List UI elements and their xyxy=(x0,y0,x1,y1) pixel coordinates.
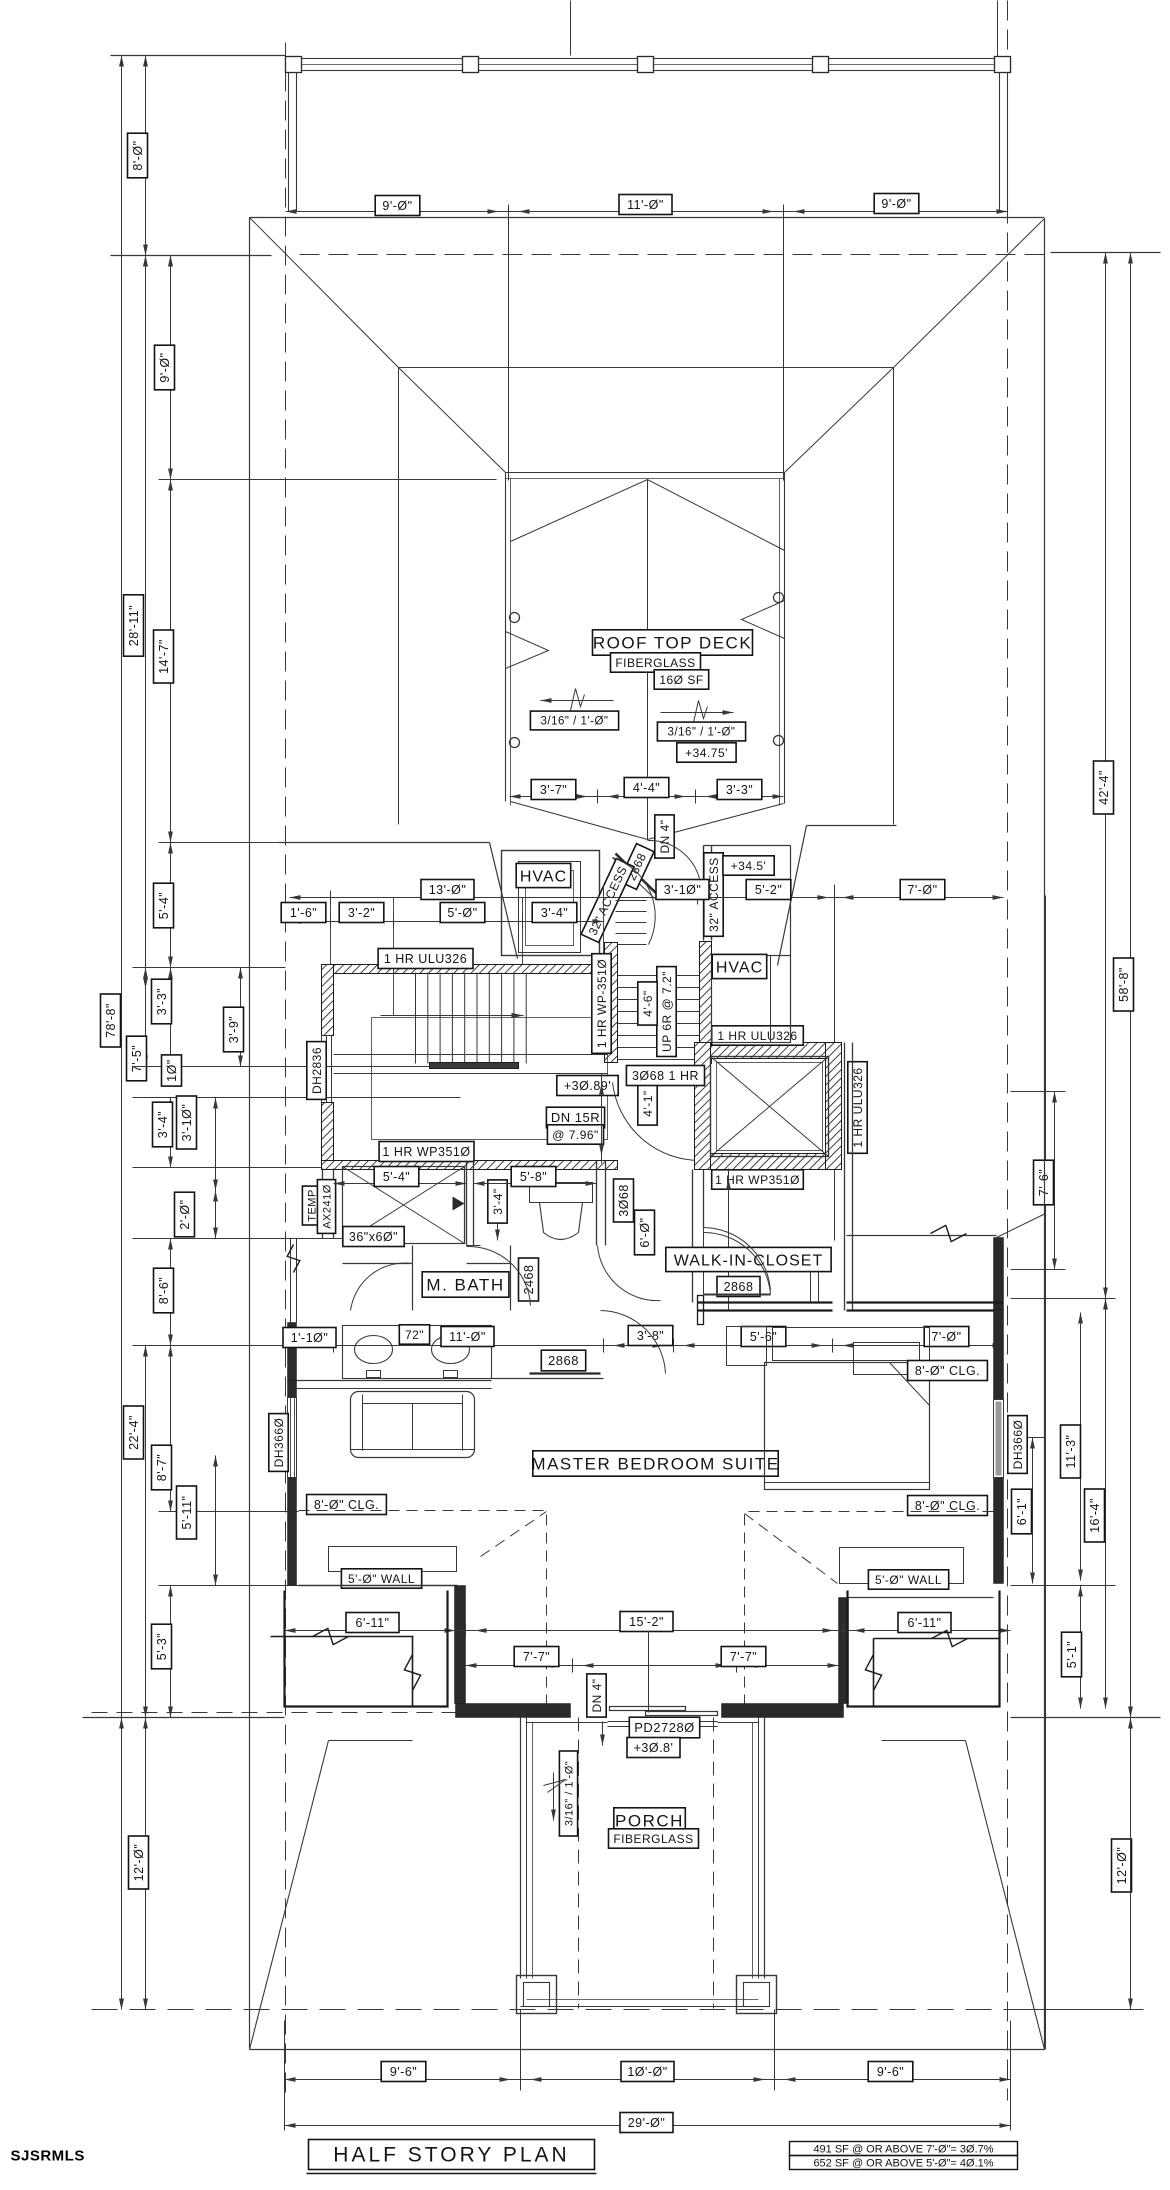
label DH3660 left xyxy=(269,1414,288,1472)
ext vert x834 xyxy=(834,885,836,1241)
porch dn arrow xyxy=(602,1722,604,1746)
ext line y2009 right xyxy=(1020,2009,1144,2011)
label ROOF TOP DECK xyxy=(593,630,753,655)
site diag left xyxy=(250,1741,329,2050)
stair rail xyxy=(430,1063,519,1069)
label 3'-7 xyxy=(531,780,576,800)
site dashed y2009 xyxy=(92,2009,1116,2011)
upper stair arc xyxy=(613,858,656,945)
railing post 1 xyxy=(286,57,302,73)
door mark xyxy=(453,1197,465,1211)
ext line y1167 xyxy=(133,1167,323,1169)
svg-text:16Ø SF: 16Ø SF xyxy=(659,673,703,687)
label 6'-1 xyxy=(1012,1489,1032,1534)
label 2868 angled xyxy=(619,844,654,890)
label 10" xyxy=(162,1055,182,1086)
label 32 ACCESS left xyxy=(581,859,634,943)
svg-text:28'-11": 28'-11" xyxy=(127,605,141,646)
stair landing lines xyxy=(334,1054,608,1056)
patio door PD27280 xyxy=(610,1707,686,1711)
svg-text:5'-Ø" WALL: 5'-Ø" WALL xyxy=(348,1572,415,1586)
label 12'-0 right xyxy=(1112,1839,1132,1892)
label DN 4 porch xyxy=(587,1674,606,1717)
svg-text:1'-1Ø": 1'-1Ø" xyxy=(291,1331,329,1345)
dim line y1345 xyxy=(297,1345,1004,1347)
svg-text:3'-8": 3'-8" xyxy=(637,1329,664,1343)
deck drain 1 xyxy=(510,613,520,623)
dim 28'-11 line xyxy=(145,256,147,989)
svg-text:11'-Ø": 11'-Ø" xyxy=(627,198,664,212)
dim 3'-9 line xyxy=(240,968,242,1067)
svg-text:SJSRMLS: SJSRMLS xyxy=(11,2148,85,2165)
roof ridge peak xyxy=(511,480,785,551)
window DH3660 right xyxy=(994,1400,1004,1478)
svg-text:DH366Ø: DH366Ø xyxy=(1011,1420,1025,1470)
dim 5'-4 line xyxy=(170,843,172,968)
label slope porch xyxy=(559,1751,577,1836)
ext line y1717 xyxy=(83,1717,285,1719)
dresser right xyxy=(727,1327,767,1366)
upper small stair treads xyxy=(616,900,647,902)
bath inner walls xyxy=(412,1246,414,1311)
label 8'-0 xyxy=(128,133,148,178)
svg-text:MASTER BEDROOM SUITE: MASTER BEDROOM SUITE xyxy=(531,1455,779,1474)
ext line y967 xyxy=(133,967,286,969)
porch top edge xyxy=(527,1722,608,1724)
ext line y1585 xyxy=(159,1585,299,1587)
dim 6'-0 line xyxy=(728,1169,730,1311)
ceiling dashed left xyxy=(299,1511,547,1718)
property line left (dashed) xyxy=(285,43,287,2101)
deck parapet left xyxy=(505,473,507,802)
hidden dash y1710 xyxy=(92,1712,456,1714)
svg-text:3/16" / 1'-Ø": 3/16" / 1'-Ø" xyxy=(668,727,736,739)
stair treads xyxy=(415,973,417,1064)
sink 2 xyxy=(432,1336,470,1364)
stair right wall xyxy=(605,943,618,1063)
setback dashed y254 xyxy=(300,254,1045,256)
svg-text:+3Ø.8': +3Ø.8' xyxy=(634,1741,674,1755)
label 3068 1HR xyxy=(626,1066,704,1086)
label 5'-3 xyxy=(152,1624,172,1669)
area table xyxy=(790,2142,1018,2156)
svg-text:3'-1Ø": 3'-1Ø" xyxy=(664,883,702,897)
label 11'-0 bath xyxy=(441,1327,494,1347)
svg-text:6'-1": 6'-1" xyxy=(1015,1498,1029,1525)
ext vert x330 xyxy=(330,898,332,965)
svg-text:7'-7": 7'-7" xyxy=(730,1650,757,1664)
svg-text:42'-4": 42'-4" xyxy=(1097,770,1111,805)
ext line y479 xyxy=(159,479,497,481)
bedroom bottom-left walls xyxy=(299,1585,458,1587)
label 5'-11 xyxy=(177,1486,197,1539)
access hatch right walls xyxy=(703,846,705,941)
label 1'-6 xyxy=(281,903,326,923)
label 3068 bath xyxy=(614,1179,634,1222)
svg-text:6'-11": 6'-11" xyxy=(356,1616,390,1630)
label 8'-0 CLG a xyxy=(307,1495,387,1515)
slope arrow left xyxy=(541,700,614,702)
svg-text:2'-Ø": 2'-Ø" xyxy=(178,1199,192,1229)
porch column right xyxy=(737,1976,777,2014)
label 1 HR ULU326 stairs xyxy=(378,949,473,969)
svg-text:5'-6": 5'-6" xyxy=(750,1330,777,1344)
label 7'-5 xyxy=(127,1036,147,1081)
svg-text:4'-1": 4'-1" xyxy=(641,1090,655,1116)
svg-text:2868: 2868 xyxy=(724,1280,754,1294)
svg-text:8'-6": 8'-6" xyxy=(157,1277,171,1304)
label 7'-6 xyxy=(1034,1160,1054,1205)
label 5'-6 xyxy=(741,1327,786,1347)
label 22'-4 xyxy=(124,1406,144,1459)
svg-text:29'-Ø": 29'-Ø" xyxy=(628,2116,666,2130)
deck dim line xyxy=(510,796,784,798)
label 8'-7 xyxy=(152,1445,172,1490)
roof inner top xyxy=(399,367,894,369)
hvac right closet xyxy=(712,956,791,1043)
bedroom top wall right xyxy=(847,1301,1004,1303)
site diag right xyxy=(966,1741,1045,2050)
railing left rail xyxy=(288,73,290,212)
svg-text:5'-1": 5'-1" xyxy=(1065,1641,1079,1668)
floor slant right xyxy=(778,826,807,966)
label 6'-11 b xyxy=(898,1613,951,1633)
label 7'-0 bed xyxy=(924,1327,969,1347)
stair inner lines xyxy=(372,1018,608,1140)
dim 14'-7 line xyxy=(170,480,172,843)
svg-text:3'-7": 3'-7" xyxy=(540,783,567,797)
bedroom bottom wall xyxy=(456,1704,571,1718)
svg-text:9'-Ø": 9'-Ø" xyxy=(382,199,412,213)
label M. BATH xyxy=(422,1272,509,1297)
label 36x60 xyxy=(343,1227,404,1247)
svg-text:DH2836: DH2836 xyxy=(310,1047,324,1094)
svg-text:M. BATH: M. BATH xyxy=(426,1276,504,1295)
svg-text:72": 72" xyxy=(405,1328,424,1342)
svg-text:FIBERGLASS: FIBERGLASS xyxy=(613,1832,693,1846)
svg-text:1Ø": 1Ø" xyxy=(165,1059,179,1082)
ext line y1238 xyxy=(133,1238,343,1240)
dim 3'-4 bath xyxy=(497,1184,499,1241)
label +30.89 xyxy=(557,1076,618,1096)
bath left wall xyxy=(322,1169,324,1239)
hvac-l closet walls xyxy=(502,851,600,956)
label 11'-0 top xyxy=(619,195,672,215)
label 58'-8 xyxy=(1114,958,1134,1011)
svg-text:1 HR WP351Ø: 1 HR WP351Ø xyxy=(382,1145,470,1159)
bedroom right wall xyxy=(994,1310,1004,1400)
roof inner right xyxy=(893,368,895,825)
label 9'-0 top b xyxy=(874,194,919,214)
deck drain 3 xyxy=(510,738,520,748)
roof hip top-right xyxy=(894,219,1045,368)
dim 3'-4 line xyxy=(170,1098,172,1168)
dim 4'-1 line xyxy=(601,1074,603,1164)
label 1 HR WP3510 shaft xyxy=(712,1170,804,1189)
ext line y1345 xyxy=(133,1345,297,1347)
label 12'-0 left xyxy=(129,1836,149,1889)
toilet xyxy=(530,1183,593,1203)
bath lower walls xyxy=(467,1263,511,1265)
svg-text:HALF STORY PLAN: HALF STORY PLAN xyxy=(333,2144,569,2167)
shaft X xyxy=(711,1057,829,1157)
label 72" xyxy=(399,1325,429,1344)
floor outline left xyxy=(279,842,490,844)
svg-text:5'-Ø" WALL: 5'-Ø" WALL xyxy=(875,1573,942,1587)
label 5'-0 WALL a xyxy=(341,1569,421,1588)
svg-text:5'-11": 5'-11" xyxy=(180,1496,194,1530)
label 3'-4 left xyxy=(153,1102,173,1147)
label 13'-0 xyxy=(421,880,474,900)
dim 5'-11 line xyxy=(215,1456,217,1586)
svg-text:9'-6": 9'-6" xyxy=(390,2065,417,2079)
svg-text:3'-4": 3'-4" xyxy=(491,1188,505,1214)
svg-text:9'-Ø": 9'-Ø" xyxy=(158,352,172,382)
svg-text:9'-6": 9'-6" xyxy=(877,2065,904,2079)
sofa xyxy=(351,1392,475,1458)
label 2468 xyxy=(519,1258,539,1301)
bedroom bottom-right walls xyxy=(848,1597,994,1599)
label 9'-0 left xyxy=(155,345,175,390)
dim 5'-8 bath xyxy=(474,1183,597,1185)
svg-text:5'-8": 5'-8" xyxy=(520,1170,547,1184)
dim 7'-6 line xyxy=(1054,1092,1056,1270)
ext line y1585 right xyxy=(1011,1585,1116,1587)
break line right xyxy=(847,1235,997,1237)
ceiling dashed right xyxy=(745,1512,994,1718)
dim 16'-4 line xyxy=(1105,1299,1107,1709)
roof hip inner-left xyxy=(399,368,506,473)
label 3'-4 bath xyxy=(488,1180,507,1223)
label HVAC left xyxy=(516,863,571,887)
closet door arc xyxy=(704,1228,771,1291)
svg-text:11'-3": 11'-3" xyxy=(1064,1435,1078,1469)
porch right wall xyxy=(764,1718,766,1979)
label 32 ACCESS right xyxy=(704,853,723,937)
svg-text:+3Ø.89': +3Ø.89' xyxy=(564,1079,611,1093)
walkin left wall xyxy=(692,1170,694,1228)
dim 9'-0 left xyxy=(170,256,172,480)
deck edge mark right xyxy=(742,601,785,639)
label 42'-4 xyxy=(1094,761,1114,814)
stair top wall xyxy=(322,965,618,974)
railing post 4 xyxy=(813,57,829,73)
label 9'-0 top a xyxy=(375,196,420,216)
svg-text:12'-Ø": 12'-Ø" xyxy=(1115,1847,1129,1885)
svg-text:14'-7": 14'-7" xyxy=(157,639,171,674)
bed xyxy=(765,1363,930,1490)
bed door sill xyxy=(530,1372,601,1374)
roof inner left xyxy=(398,368,400,825)
porch steps xyxy=(608,1721,718,1723)
label 8'-0 CLG c xyxy=(908,1496,988,1516)
svg-text:1'-6": 1'-6" xyxy=(290,906,317,920)
sink 1 xyxy=(355,1336,393,1364)
svg-text:PORCH: PORCH xyxy=(615,1812,684,1831)
svg-text:13'-Ø": 13'-Ø" xyxy=(429,883,467,897)
deck access arc xyxy=(648,840,700,878)
ext line y842 xyxy=(159,842,279,844)
label 29'-0 xyxy=(620,2113,673,2133)
svg-text:+34.75': +34.75' xyxy=(685,746,728,760)
label @7.96 xyxy=(547,1125,603,1144)
shaft inner xyxy=(711,1057,829,1157)
deck valley right xyxy=(648,804,784,840)
svg-text:1 HR ULU326: 1 HR ULU326 xyxy=(717,1029,797,1043)
label 3'-3 deck xyxy=(717,780,762,800)
label 1 HR ULU326 shaft xyxy=(712,1026,804,1045)
label 1'-10 xyxy=(283,1328,336,1348)
svg-text:3'-3": 3'-3" xyxy=(726,783,753,797)
svg-text:8'-Ø" CLG.: 8'-Ø" CLG. xyxy=(314,1498,379,1512)
dim 3'-10 line xyxy=(215,1098,217,1191)
window DH2836 xyxy=(322,1036,332,1103)
dim 11'-3 line xyxy=(1080,1313,1082,1581)
floor outline right xyxy=(807,825,897,827)
label DN 4 deck xyxy=(655,815,674,858)
bedroom left wall xyxy=(288,1381,297,1398)
ext line y255 xyxy=(111,255,272,257)
svg-text:7'-5": 7'-5" xyxy=(130,1045,144,1072)
label FIBERGLASS deck xyxy=(611,653,701,672)
ext line y55 xyxy=(111,55,286,57)
ext line y1066 xyxy=(133,1066,461,1068)
left side room xyxy=(285,1591,448,1707)
svg-text:491 SF @ OR ABOVE 7'-Ø"= 3Ø.7%: 491 SF @ OR ABOVE 7'-Ø"= 3Ø.7% xyxy=(813,2144,993,2156)
tub xyxy=(343,1167,465,1244)
dim 8'-6 line xyxy=(170,1239,172,1346)
closet pocket door xyxy=(704,1294,771,1296)
svg-text:5'-4": 5'-4" xyxy=(383,1170,410,1184)
upper dim line y897 xyxy=(290,897,1004,899)
svg-text:3'-2": 3'-2" xyxy=(348,906,375,920)
label 5'-4 left xyxy=(154,883,174,928)
railing right rail xyxy=(999,73,1001,212)
svg-text:16'-4": 16'-4" xyxy=(1088,1498,1102,1533)
label 6'-0 xyxy=(635,1210,655,1255)
svg-text:6'-Ø": 6'-Ø" xyxy=(638,1217,652,1247)
dim 3'-3 line xyxy=(170,968,172,1067)
dim 58'-8 line xyxy=(1130,253,1132,1718)
svg-text:3Ø68: 3Ø68 xyxy=(617,1184,631,1217)
ext line y1437 xyxy=(1011,1437,1046,1439)
label +34.5 xyxy=(723,856,774,875)
ext line y1097 xyxy=(133,1097,461,1099)
label 3'-3 xyxy=(152,979,172,1024)
svg-text:8'-7": 8'-7" xyxy=(155,1454,169,1481)
svg-text:3/16" / 1'-Ø": 3/16" / 1'-Ø" xyxy=(564,1761,576,1826)
sheet stub lines top xyxy=(570,1,572,56)
up stair wall right xyxy=(700,942,712,1064)
up stairs treads xyxy=(618,975,700,977)
roof outer left xyxy=(249,218,251,2050)
floor slant left xyxy=(490,843,518,959)
label 7'-7 b xyxy=(721,1647,766,1667)
railing post 5 xyxy=(995,57,1011,73)
vanity bottom wall xyxy=(297,1380,492,1382)
svg-text:3'-4": 3'-4" xyxy=(541,906,568,920)
angled door 2868 xyxy=(616,854,658,895)
label 160 SF xyxy=(654,670,709,689)
upper dim line y921 xyxy=(290,921,604,923)
label 2868 closet xyxy=(717,1277,760,1297)
label 11'-3 xyxy=(1061,1425,1081,1478)
svg-text:15'-2": 15'-2" xyxy=(629,1615,664,1629)
label 4'-1 xyxy=(638,1082,657,1125)
svg-text:AX241Ø: AX241Ø xyxy=(322,1184,334,1229)
railing post 3 xyxy=(638,57,654,73)
ext line y1298 xyxy=(1011,1298,1116,1300)
walkin walls xyxy=(692,1228,694,1303)
label 6'-11 a xyxy=(346,1613,399,1633)
dim 12'-0 right line xyxy=(1130,1718,1132,2010)
svg-text:6'-11": 6'-11" xyxy=(908,1616,942,1630)
dim 5'-4 bath xyxy=(334,1183,467,1185)
label 5'-4 bath xyxy=(374,1167,419,1187)
bath divider wall xyxy=(466,1161,468,1246)
ext vert x1045 xyxy=(1045,896,1047,2050)
svg-text:3'-4": 3'-4" xyxy=(156,1111,170,1138)
label TEMP AX2410 xyxy=(302,1186,320,1225)
ext line y1269 xyxy=(1011,1269,1066,1271)
svg-text:7'-7": 7'-7" xyxy=(523,1650,550,1664)
label PD27280 xyxy=(629,1717,699,1738)
porch slope arrow xyxy=(553,1773,555,1821)
ext line right y252 xyxy=(1051,252,1161,254)
svg-text:DH366Ø: DH366Ø xyxy=(272,1418,286,1468)
deck parapet top xyxy=(506,472,785,474)
label 3'-10 xyxy=(177,1096,197,1149)
stair left wall upper xyxy=(322,965,334,1036)
svg-text:8'-Ø" CLG.: 8'-Ø" CLG. xyxy=(915,1364,980,1378)
ext line y1717 right xyxy=(1011,1717,1161,1719)
closet partition lines xyxy=(810,1271,812,1303)
ext vert x522 xyxy=(522,898,524,965)
bath door arcs xyxy=(467,1246,531,1305)
right side room xyxy=(848,1591,1000,1707)
label 3'-2 xyxy=(339,903,384,923)
label 5'-0 xyxy=(440,903,485,923)
ext vert x603 xyxy=(603,885,605,965)
svg-text:5'-3": 5'-3" xyxy=(155,1633,169,1660)
svg-text:78'-8": 78'-8" xyxy=(104,1003,118,1038)
svg-text:1Ø'-Ø": 1Ø'-Ø" xyxy=(627,2065,667,2079)
ext vert x393 xyxy=(393,898,395,1016)
label DN 15R xyxy=(546,1107,604,1128)
svg-text:2868: 2868 xyxy=(548,1353,579,1368)
dim 22'-4 line xyxy=(145,1346,147,1718)
svg-text:HVAC: HVAC xyxy=(520,868,567,885)
dim 5'-1 line xyxy=(1080,1586,1082,1709)
roof outer right xyxy=(1044,219,1046,2050)
svg-text:11'-Ø": 11'-Ø" xyxy=(449,1330,486,1344)
railing post 2 xyxy=(463,57,479,73)
stair arrow xyxy=(381,1015,524,1017)
dim 7'-7 line xyxy=(466,1665,839,1667)
svg-text:1 HR WP-351Ø: 1 HR WP-351Ø xyxy=(595,959,609,1048)
dim 15'-2 line xyxy=(285,1630,1011,1632)
deck drain 2 xyxy=(774,593,784,603)
svg-text:22'-4": 22'-4" xyxy=(127,1415,141,1450)
roof hip inner-right xyxy=(785,368,894,473)
svg-text:3Ø68 1 HR: 3Ø68 1 HR xyxy=(632,1069,699,1083)
svg-text:ROOF TOP DECK: ROOF TOP DECK xyxy=(593,634,752,653)
label 3'-4 hvac xyxy=(532,903,577,923)
svg-text:5'-Ø": 5'-Ø" xyxy=(447,906,477,920)
deck center line xyxy=(647,480,649,840)
stair bottom wall xyxy=(322,1161,618,1170)
label 16'-4 xyxy=(1085,1489,1105,1542)
